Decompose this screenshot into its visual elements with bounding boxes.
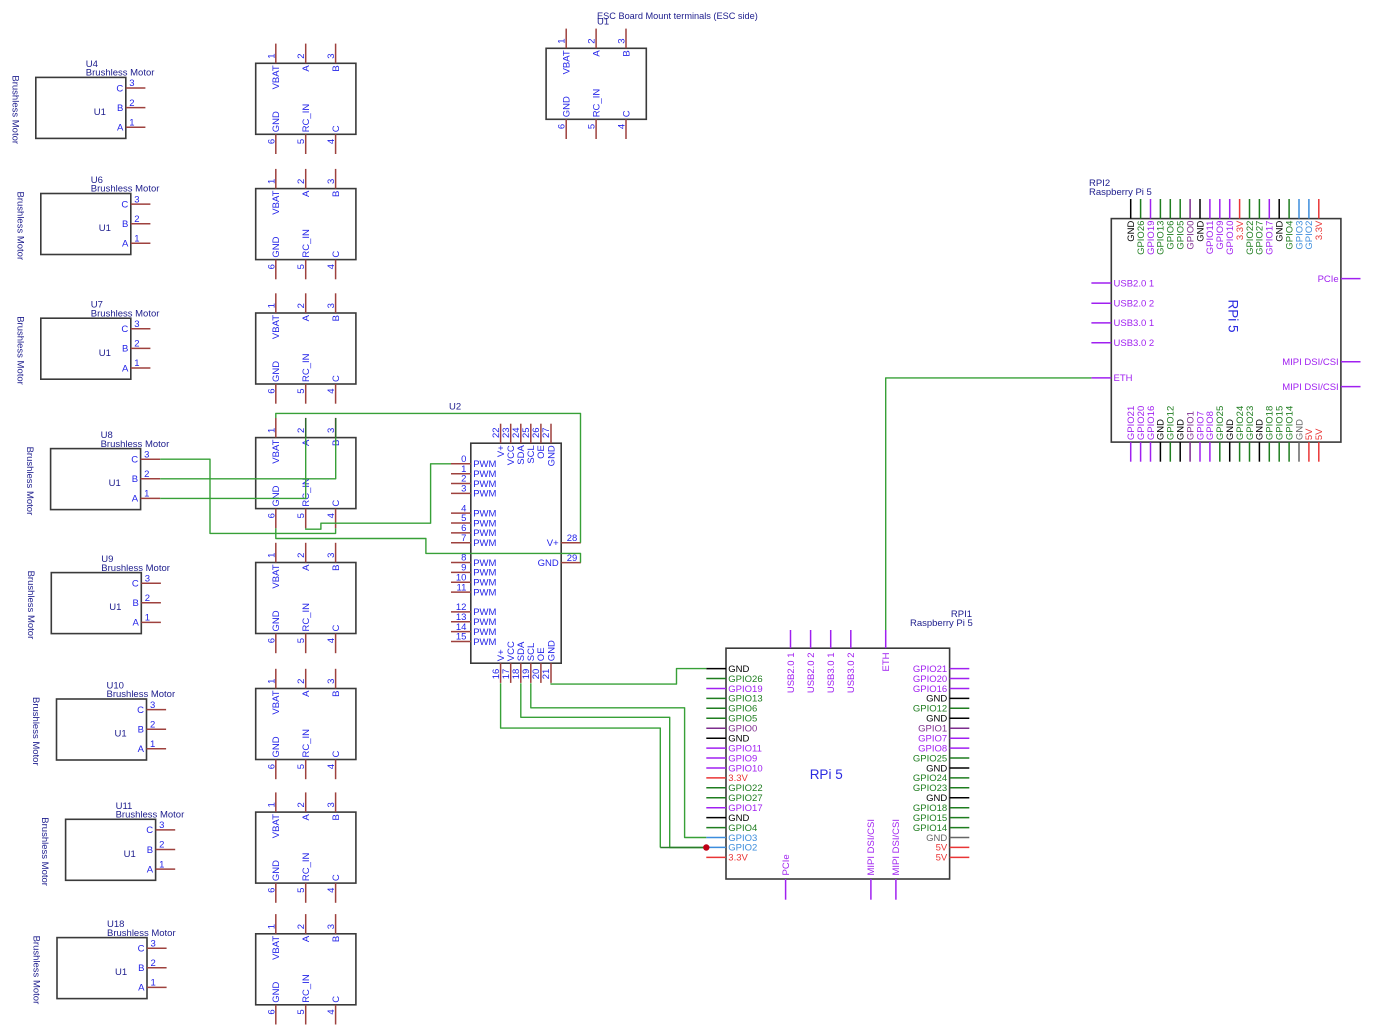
RPI2 bottom pin GND — [1294, 419, 1305, 462]
U2 pin 23 (VCC) top — [501, 424, 517, 466]
wire U2 pin21 GND to RPI1 GND — [551, 669, 706, 685]
RPI2 top pin GPIO10 — [1225, 199, 1236, 255]
RPI1 left pin GPIO26 — [706, 674, 762, 685]
svg-text:GND: GND — [271, 610, 282, 631]
svg-text:1: 1 — [266, 924, 277, 929]
svg-text:B: B — [331, 315, 342, 321]
svg-text:RC_IN: RC_IN — [301, 852, 312, 881]
svg-text:C: C — [331, 625, 342, 632]
ESC5 pin 5 (RC_IN) bottom — [296, 603, 312, 653]
RPI2 left pin USB2.0 1 — [1091, 278, 1154, 289]
svg-text:B: B — [117, 103, 123, 114]
motor U6 (Brushless Motor) — [14, 175, 159, 260]
RPI1 bottom pin MIPI DSI/CSI — [866, 819, 877, 900]
RPI1 top pin USB3.0 2 — [846, 630, 857, 693]
RPI1 right pin GPIO12 — [913, 704, 969, 715]
U2 pin 8 (PWM) — [451, 553, 497, 569]
ESC8 body — [256, 934, 356, 1005]
RPI2 bottom pin 5V — [1304, 428, 1315, 462]
svg-text:B: B — [122, 344, 128, 355]
ESC5 pin 6 (GND) bottom — [266, 610, 282, 653]
RPI1 right pin GND — [926, 833, 969, 844]
U2 pin 10 (PWM) — [451, 572, 497, 588]
wire motor U8 C to ESC4 pin4 C — [160, 459, 335, 533]
svg-text:USB2.0 1: USB2.0 1 — [786, 653, 797, 694]
RPI2 bottom pin GPIO18 — [1265, 406, 1276, 462]
svg-text:4: 4 — [326, 389, 337, 394]
RPI1 left pin GND — [706, 813, 749, 824]
svg-text:4: 4 — [326, 888, 337, 893]
svg-text:5: 5 — [296, 139, 307, 144]
svg-text:B: B — [331, 65, 342, 71]
svg-text:A: A — [301, 813, 312, 820]
RPI1 right pin GND — [926, 694, 969, 705]
svg-text:1: 1 — [266, 303, 277, 308]
svg-text:4: 4 — [326, 139, 337, 144]
svg-text:6: 6 — [266, 638, 277, 643]
RPI2 bottom pin GPIO20 — [1136, 406, 1147, 462]
U8 pin 3 (C) — [131, 449, 160, 465]
svg-text:1: 1 — [266, 679, 277, 684]
U2 pin 13 (PWM) — [451, 612, 497, 628]
RPI2 top pin GPIO11 — [1205, 199, 1216, 254]
svg-text:RC_IN: RC_IN — [301, 729, 312, 758]
ESC2 pin 5 (RC_IN) bottom — [296, 229, 312, 279]
svg-text:ETH: ETH — [1114, 373, 1133, 384]
ESC7 pin 3 (B) top — [326, 792, 342, 820]
RPI2 top pin 3.3V — [1314, 199, 1325, 240]
svg-text:A: A — [301, 65, 312, 72]
RPI2 bottom pin GPIO16 — [1146, 406, 1157, 462]
wire ESC4 GND to U2 GND pin29 — [276, 528, 581, 562]
ESC4 pin 5 (RC_IN) bottom — [296, 478, 312, 528]
RPI2 bottom pin GPIO7 — [1195, 411, 1206, 462]
ESC2 pin 2 (A) top — [296, 169, 312, 197]
svg-text:1: 1 — [266, 179, 277, 184]
ESC8 pin 1 (VBAT) top — [266, 914, 282, 960]
svg-text:U1: U1 — [109, 478, 121, 489]
svg-text:A: A — [591, 50, 602, 57]
ESC6 pin 5 (RC_IN) bottom — [296, 729, 312, 779]
svg-text:VBAT: VBAT — [271, 690, 282, 714]
RPI1 left pin GPIO5 — [706, 714, 757, 725]
svg-text:GND: GND — [271, 111, 282, 132]
ESC8 pin 6 (GND) bottom — [266, 982, 282, 1025]
U10 body — [57, 699, 147, 760]
svg-text:GND: GND — [562, 96, 573, 117]
ESC1 pin 6 (GND) bottom — [266, 111, 282, 154]
ESC3 pin 1 (VBAT) top — [266, 293, 282, 339]
svg-text:B: B — [138, 963, 144, 974]
svg-text:3: 3 — [326, 679, 337, 684]
svg-text:GND: GND — [271, 236, 282, 257]
svg-text:C: C — [331, 751, 342, 758]
svg-text:V+: V+ — [547, 538, 559, 549]
svg-text:2: 2 — [296, 679, 307, 684]
wire ESC4 pin3 B to motor U8 B — [160, 418, 336, 479]
wire RPI1 ETH to RPI2 ETH — [886, 378, 1092, 630]
U2 pin 9 (PWM) — [451, 563, 497, 579]
svg-text:11: 11 — [457, 582, 467, 593]
svg-text:Raspberry Pi 5: Raspberry Pi 5 — [1089, 187, 1152, 198]
svg-text:VBAT: VBAT — [271, 315, 282, 339]
RPI1 left pin GPIO13 — [706, 694, 762, 705]
svg-text:VBAT: VBAT — [271, 936, 282, 960]
RPI2 top pin GPIO2 — [1304, 199, 1315, 250]
svg-text:A: A — [301, 190, 312, 197]
svg-text:27: 27 — [541, 427, 552, 438]
svg-text:PCIe: PCIe — [781, 854, 792, 875]
U11 body — [66, 819, 156, 880]
svg-text:B: B — [132, 474, 138, 485]
svg-text:RC_IN: RC_IN — [301, 478, 312, 507]
svg-text:5: 5 — [296, 264, 307, 269]
svg-text:1: 1 — [159, 859, 164, 870]
ESC3 pin 2 (A) top — [296, 293, 312, 321]
U9 pin 1 (A) — [132, 613, 160, 629]
svg-text:RC_IN: RC_IN — [301, 603, 312, 632]
ESC6 pin 3 (B) top — [326, 669, 342, 697]
U7 pin 1 (A) — [122, 358, 150, 374]
ESC7 body — [256, 812, 356, 883]
U6 pin 2 (B) — [122, 214, 150, 230]
ESC1 pin 5 (RC_IN) bottom — [296, 104, 312, 154]
RPI1 right pin GND — [926, 793, 969, 804]
RPI1 top pin USB2.0 2 — [806, 630, 817, 693]
RPI2 top pin GPIO17 — [1265, 199, 1276, 255]
ESC8 pin 2 (A) top — [296, 914, 312, 942]
svg-text:USB2.0 2: USB2.0 2 — [806, 653, 817, 694]
ESC4 pin 4 (C) bottom — [326, 500, 342, 529]
U2 pin 28 (V+) right — [547, 533, 581, 549]
U6 pin 3 (C) — [121, 194, 150, 210]
svg-text:MIPI DSI/CSI: MIPI DSI/CSI — [891, 819, 902, 875]
U11 pin 1 (A) — [147, 859, 175, 875]
svg-text:Raspberry Pi 5: Raspberry Pi 5 — [910, 618, 973, 629]
svg-text:3: 3 — [326, 924, 337, 929]
svg-text:B: B — [331, 691, 342, 697]
svg-text:5: 5 — [296, 389, 307, 394]
RPI2 top pin GPIO4 — [1284, 199, 1295, 250]
svg-text:3: 3 — [150, 700, 155, 711]
svg-text:Brushless Motor: Brushless Motor — [25, 571, 36, 640]
U2 pin 20 (OE) bottom — [531, 647, 547, 682]
svg-text:6: 6 — [557, 124, 568, 129]
wire U2 pin16 V+ to GPIO2 junction — [501, 683, 661, 847]
svg-text:4: 4 — [326, 513, 337, 518]
svg-text:C: C — [131, 455, 138, 466]
RPI1 left pin GPIO4 — [706, 823, 757, 834]
svg-text:U1: U1 — [115, 967, 127, 978]
RPI1 right pin GPIO23 — [913, 783, 969, 794]
svg-text:1: 1 — [129, 117, 134, 128]
svg-text:U1: U1 — [99, 348, 111, 359]
svg-text:1: 1 — [151, 978, 156, 989]
svg-text:4: 4 — [326, 1009, 337, 1014]
RPI2 bottom pin GPIO15 — [1275, 406, 1286, 462]
RPI1 right pin GPIO14 — [913, 823, 969, 834]
motor U8 (Brushless Motor) — [24, 430, 169, 515]
svg-text:A: A — [122, 363, 129, 374]
svg-text:PWM: PWM — [473, 587, 496, 598]
RPI2 top pin GPIO26 — [1136, 199, 1147, 255]
svg-text:5V: 5V — [936, 853, 948, 864]
RPI1 left pin GPIO10 — [706, 763, 762, 774]
svg-text:Brushless Motor: Brushless Motor — [9, 75, 20, 144]
U2 pin 29 (GND) right — [538, 553, 581, 569]
svg-text:4: 4 — [617, 124, 628, 129]
wire ESC4 VBAT to U2 V+ pin28 — [276, 413, 581, 542]
U2 pin 26 (OE) top — [531, 424, 547, 459]
ESC6 pin 6 (GND) bottom — [266, 736, 282, 779]
svg-text:5: 5 — [296, 764, 307, 769]
U2 pin 5 (PWM) — [451, 513, 497, 529]
svg-text:6: 6 — [266, 389, 277, 394]
svg-text:A: A — [301, 935, 312, 942]
svg-text:B: B — [147, 845, 153, 856]
svg-text:A: A — [138, 744, 145, 755]
svg-text:6: 6 — [266, 764, 277, 769]
svg-text:PWM: PWM — [473, 538, 496, 549]
RPI1 left pin GPIO3 — [706, 833, 757, 844]
svg-text:3: 3 — [151, 938, 156, 949]
ESC3 pin 6 (GND) bottom — [266, 361, 282, 404]
RPI2 bottom pin 5V — [1314, 428, 1325, 462]
U18 pin 3 (C) — [138, 938, 167, 954]
svg-text:1: 1 — [145, 613, 150, 624]
svg-text:GND: GND — [271, 860, 282, 881]
svg-text:2: 2 — [587, 38, 598, 43]
svg-text:2: 2 — [296, 179, 307, 184]
RPI1 right pin GPIO1 — [918, 724, 969, 735]
svg-text:3: 3 — [159, 820, 164, 831]
U4 pin 1 (A) — [117, 117, 145, 133]
RPI1 right pin GPIO25 — [913, 753, 969, 764]
svg-text:5: 5 — [296, 638, 307, 643]
RPI2 bottom pin GPIO8 — [1205, 411, 1216, 462]
svg-text:RC_IN: RC_IN — [301, 974, 312, 1003]
RPI2 top pin GND — [1126, 199, 1137, 242]
svg-text:A: A — [301, 690, 312, 697]
svg-text:C: C — [331, 874, 342, 881]
RPI2 top pin GPIO19 — [1146, 199, 1157, 255]
svg-text:C: C — [137, 705, 144, 716]
svg-text:PWM: PWM — [473, 637, 496, 648]
svg-text:1: 1 — [150, 739, 155, 750]
RPI1 right pin GND — [926, 714, 969, 725]
svg-text:Brushless Motor: Brushless Motor — [31, 936, 42, 1005]
svg-text:3: 3 — [461, 484, 466, 495]
U6 pin 1 (A) — [122, 234, 150, 250]
U2 pin 19 (SCL) bottom — [521, 643, 537, 683]
svg-text:A: A — [122, 239, 129, 250]
svg-text:1: 1 — [134, 234, 139, 245]
svg-text:GND: GND — [546, 445, 557, 466]
svg-text:5V: 5V — [1314, 428, 1325, 440]
svg-text:VBAT: VBAT — [271, 65, 282, 89]
svg-text:5: 5 — [296, 1009, 307, 1014]
ESC7 pin 6 (GND) bottom — [266, 860, 282, 903]
U1 ESC mount terminal pin 5 (RC_IN) bottom — [587, 89, 603, 139]
RPI1 right pin GPIO15 — [913, 813, 969, 824]
RPI1 left pin GPIO9 — [706, 753, 757, 764]
U2 pin 12 (PWM) — [451, 602, 497, 618]
svg-text:USB3.0 2: USB3.0 2 — [846, 653, 857, 694]
RPI2 body (Raspberry Pi 5) — [1111, 219, 1341, 443]
svg-text:A: A — [301, 439, 312, 446]
svg-text:VBAT: VBAT — [271, 564, 282, 588]
svg-text:2: 2 — [296, 553, 307, 558]
svg-text:GND: GND — [271, 982, 282, 1003]
ESC8 pin 3 (B) top — [326, 914, 342, 942]
svg-text:C: C — [331, 996, 342, 1003]
RPI1 left pin GPIO22 — [706, 783, 762, 794]
U2 pin 18 (SDA) bottom — [511, 641, 527, 683]
svg-text:USB3.0 2: USB3.0 2 — [1114, 338, 1155, 349]
U1 ESC mount terminal pin 1 (VBAT) top — [557, 29, 573, 75]
RPI2 left pin USB3.0 1 — [1091, 318, 1154, 329]
svg-text:RC_IN: RC_IN — [591, 89, 602, 118]
svg-text:GND: GND — [546, 640, 557, 661]
motor U7 (Brushless Motor) — [14, 300, 159, 385]
svg-text:C: C — [331, 500, 342, 507]
svg-text:C: C — [132, 579, 139, 590]
U18 body — [57, 938, 147, 999]
svg-text:Brushless Motor: Brushless Motor — [39, 817, 50, 886]
motor U9 (Brushless Motor) — [25, 554, 170, 639]
U8 body — [51, 449, 141, 510]
svg-text:B: B — [331, 565, 342, 571]
RPI1 left pin 3.3V — [706, 773, 748, 784]
ESC6 pin 1 (VBAT) top — [266, 669, 282, 715]
svg-text:A: A — [301, 564, 312, 571]
ESC6 pin 2 (A) top — [296, 669, 312, 697]
ESC8 pin 4 (C) bottom — [326, 996, 342, 1025]
U18 pin 1 (A) — [138, 978, 166, 994]
svg-text:USB2.0 1: USB2.0 1 — [1114, 278, 1155, 289]
svg-text:B: B — [621, 50, 632, 56]
svg-text:GND: GND — [271, 736, 282, 757]
svg-text:B: B — [138, 725, 144, 736]
svg-text:MIPI DSI/CSI: MIPI DSI/CSI — [1282, 357, 1338, 368]
U2 pin 14 (PWM) — [451, 622, 497, 638]
RPI2 left pin USB3.0 2 — [1091, 338, 1154, 349]
RPI2 top pin GPIO3 — [1294, 199, 1305, 250]
RPI2 right pin MIPI DSI/CSI — [1282, 357, 1360, 368]
svg-text:2: 2 — [296, 802, 307, 807]
ESC2 pin 6 (GND) bottom — [266, 236, 282, 279]
svg-text:5: 5 — [587, 124, 598, 129]
ESC1 pin 4 (C) bottom — [326, 125, 342, 154]
svg-text:U2: U2 — [449, 401, 461, 412]
svg-text:U1: U1 — [99, 223, 111, 234]
ESC5 pin 4 (C) bottom — [326, 625, 342, 654]
svg-text:3: 3 — [326, 53, 337, 58]
U4 pin 3 (C) — [116, 78, 145, 94]
ESC1 pin 2 (A) top — [296, 44, 312, 72]
svg-text:B: B — [132, 598, 138, 609]
RPI2 bottom pin GPIO23 — [1245, 406, 1256, 462]
U2 pin 15 (PWM) — [451, 632, 497, 648]
svg-text:A: A — [132, 618, 139, 629]
RPI1 right pin GPIO24 — [913, 773, 969, 784]
svg-text:2: 2 — [134, 339, 139, 350]
svg-text:15: 15 — [456, 632, 467, 643]
svg-text:MIPI DSI/CSI: MIPI DSI/CSI — [866, 819, 877, 875]
U1 ESC mount terminal body — [546, 48, 646, 119]
junction dot at RPI1 GPIO2 — [703, 844, 709, 850]
U2 pin 6 (PWM) — [451, 523, 497, 539]
wire ESC4 pin2 A to motor U8 A — [160, 418, 306, 498]
svg-text:2: 2 — [296, 53, 307, 58]
svg-text:28: 28 — [567, 533, 578, 544]
svg-text:RPi 5: RPi 5 — [810, 767, 843, 782]
RPI2 bottom pin GND — [1225, 419, 1236, 462]
RPI1 right pin GPIO20 — [913, 674, 969, 685]
svg-text:3: 3 — [326, 553, 337, 558]
svg-text:1: 1 — [266, 553, 277, 558]
svg-text:B: B — [331, 936, 342, 942]
svg-text:7: 7 — [461, 533, 466, 544]
U2 pin 7 (PWM) — [451, 533, 497, 549]
svg-text:Brushless Motor: Brushless Motor — [14, 192, 25, 261]
RPI2 bottom pin GPIO14 — [1284, 406, 1295, 462]
ESC6 pin 4 (C) bottom — [326, 751, 342, 780]
U18 pin 2 (B) — [138, 958, 166, 974]
svg-text:3: 3 — [129, 78, 134, 89]
ESC8 pin 5 (RC_IN) bottom — [296, 974, 312, 1024]
ESC5 body — [256, 563, 356, 634]
svg-text:PCIe: PCIe — [1318, 274, 1339, 285]
U1 ESC mount terminal pin 6 (GND) bottom — [557, 96, 573, 139]
RPI1 bottom pin MIPI DSI/CSI — [891, 819, 902, 900]
svg-text:A: A — [132, 494, 139, 505]
RPI2 bottom pin GPIO1 — [1185, 411, 1196, 462]
svg-text:3: 3 — [134, 194, 139, 205]
ESC1 body — [256, 63, 356, 134]
U2 pin 27 (GND) top — [541, 424, 557, 467]
RPI2 left pin ETH — [1091, 373, 1132, 384]
svg-text:5: 5 — [296, 513, 307, 518]
RPI1 right pin GPIO16 — [913, 684, 969, 695]
svg-text:1: 1 — [266, 428, 277, 433]
svg-text:A: A — [117, 123, 124, 134]
svg-text:GND: GND — [271, 485, 282, 506]
ESC2 body — [256, 189, 356, 260]
ESC5 pin 2 (A) top — [296, 543, 312, 571]
RPI1 body (Raspberry Pi 5) — [726, 648, 950, 879]
svg-text:29: 29 — [567, 553, 578, 564]
RPI2 top pin GPIO6 — [1166, 199, 1177, 250]
RPI1 left pin GPIO19 — [706, 684, 762, 695]
U7 body — [41, 318, 131, 379]
svg-text:C: C — [121, 324, 128, 335]
RPI1 right pin GPIO7 — [918, 734, 969, 745]
ESC3 pin 4 (C) bottom — [326, 375, 342, 404]
ESC1 pin 1 (VBAT) top — [266, 44, 282, 90]
svg-text:3: 3 — [326, 303, 337, 308]
RPI1 left pin GPIO0 — [706, 724, 757, 735]
RPI1 right pin GPIO21 — [913, 664, 969, 675]
svg-text:Brushless Motor: Brushless Motor — [24, 447, 35, 516]
ESC4 pin 2 (A) top — [296, 418, 312, 446]
svg-text:4: 4 — [326, 764, 337, 769]
svg-text:B: B — [331, 814, 342, 820]
svg-text:A: A — [147, 864, 154, 875]
wire overlap on ESC4 pin3 — [335, 418, 337, 438]
U2 pin 22 (V+) top — [491, 424, 507, 457]
U9 pin 3 (C) — [132, 573, 161, 589]
